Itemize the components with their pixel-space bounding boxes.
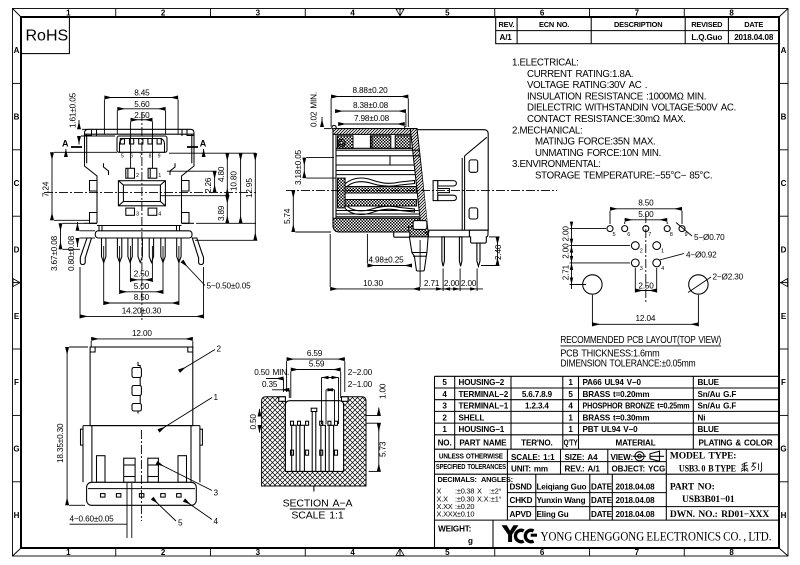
pin 2 (459, 237, 462, 266)
svg-text:1: 1 (442, 425, 447, 434)
dim 5.59 (291, 360, 341, 398)
svg-text:CURRENT RATING:1.8A.: CURRENT RATING:1.8A. (527, 69, 633, 80)
svg-text:PHOSPHOR BRONZE t=0.25mm: PHOSPHOR BRONZE t=0.25mm (583, 402, 690, 411)
svg-text:3: 3 (442, 402, 447, 411)
svg-text:E: E (781, 312, 787, 321)
svg-text:2018.04.08: 2018.04.08 (734, 33, 774, 42)
svg-text:4: 4 (442, 390, 447, 399)
svg-text:2.00: 2.00 (562, 243, 571, 259)
centerline vertical (645, 214, 647, 302)
svg-text:4−0.60±0.05: 4−0.60±0.05 (70, 515, 115, 524)
dim 4.80 (160, 153, 256, 196)
dim 2.50 bottom (130, 246, 152, 282)
svg-text:0.02 MIN.: 0.02 MIN. (310, 92, 319, 127)
centerline horizontal (44, 191, 256, 193)
zone ticks and labels top (66, 9, 734, 18)
view symbols (633, 451, 664, 462)
dim 0.80±0.08 (67, 222, 95, 271)
shell chamfer fold (462, 137, 487, 230)
svg-text:2: 2 (136, 173, 139, 179)
svg-text:2−1.00: 2−1.00 (348, 380, 373, 389)
svg-text:g: g (468, 537, 473, 546)
svg-text:2.26: 2.26 (204, 177, 213, 193)
body outline (333, 129, 429, 232)
svg-text:1: 1 (568, 378, 573, 387)
dim 10.30 (330, 234, 420, 289)
svg-text:C: C (14, 179, 20, 188)
svg-text:1.ELECTRICAL:: 1.ELECTRICAL: (512, 58, 579, 69)
svg-text:APVD: APVD (510, 510, 532, 519)
dim 12.00 (91, 329, 193, 349)
svg-text:10.80: 10.80 (230, 171, 239, 191)
svg-text:2.00: 2.00 (444, 279, 460, 288)
svg-text:7.98±0.08: 7.98±0.08 (354, 114, 390, 123)
svg-text:8.50: 8.50 (134, 293, 150, 302)
shell top box (85, 129, 195, 163)
svg-text:2018.04.08: 2018.04.08 (616, 510, 656, 519)
svg-text:1: 1 (66, 9, 71, 18)
svg-text:PART NAME: PART NAME (459, 439, 507, 448)
bottom hatched bar (333, 218, 422, 232)
dim 18.35±0.30 (56, 347, 88, 505)
svg-text:4: 4 (158, 212, 161, 218)
note 5-0.50±0.05 (182, 261, 251, 291)
mid holes 1-4 (631, 242, 660, 267)
dim 2-1.00 (326, 380, 373, 424)
svg-text:BRASS t=0.20mm: BRASS t=0.20mm (583, 390, 650, 399)
svg-text:G: G (13, 445, 19, 454)
parts table grid (435, 376, 780, 548)
dim 2-2.00 (322, 368, 373, 424)
front face hatched band (410, 129, 429, 232)
svg-text:A: A (62, 139, 69, 149)
svg-text:DIMENSION TOLERANCE:±0.05mm: DIMENSION TOLERANCE:±0.05mm (560, 359, 695, 370)
svg-text:C: C (781, 179, 787, 188)
centerline horizontal (286, 189, 557, 191)
dim 7.24 (42, 152, 118, 220)
svg-text:SECTION A−A: SECTION A−A (283, 498, 353, 510)
svg-text:2: 2 (640, 249, 643, 255)
svg-text:3: 3 (214, 489, 219, 498)
svg-text:BLUE: BLUE (698, 378, 720, 387)
signature rows (510, 483, 656, 520)
svg-text:2.50: 2.50 (134, 111, 150, 120)
svg-text:DATE: DATE (591, 483, 613, 492)
center zipper profile (132, 362, 141, 414)
dim 3.18±0.05 (294, 149, 336, 185)
model type cell (670, 451, 769, 520)
usb opening slot (117, 136, 167, 152)
svg-text:12.95: 12.95 (245, 178, 254, 198)
zone ticks and labels right (779, 46, 788, 520)
svg-text:A/1: A/1 (500, 33, 513, 42)
svg-text:4: 4 (350, 548, 355, 557)
housing-2 top box (90, 347, 193, 426)
zone ticks and labels left (13, 46, 22, 520)
svg-text:PA66 UL94 V−0: PA66 UL94 V−0 (583, 378, 642, 387)
svg-text:6.59: 6.59 (307, 349, 323, 358)
svg-text:5.00: 5.00 (638, 210, 654, 219)
dim 0.35 (262, 380, 289, 398)
svg-text:DATE: DATE (591, 496, 613, 505)
svg-text:2.00: 2.00 (461, 279, 477, 288)
callout 3 (157, 463, 219, 498)
svg-text:2.50: 2.50 (134, 270, 150, 279)
callout 5 (152, 498, 183, 528)
svg-text:0.35: 0.35 (262, 380, 278, 389)
svg-text:9: 9 (685, 232, 688, 238)
lamination lines lower (336, 211, 419, 217)
dim 7.98±0.08 (338, 114, 405, 130)
svg-text:8: 8 (670, 232, 673, 238)
svg-text:H: H (781, 511, 787, 520)
svg-text:5: 5 (445, 548, 450, 557)
svg-text:1: 1 (66, 548, 71, 557)
flange (85, 223, 195, 231)
svg-text:2−2.00: 2−2.00 (348, 368, 373, 377)
hatched U section (262, 397, 366, 486)
peg root hatch (409, 227, 429, 237)
dim 6.59 (287, 349, 345, 392)
svg-text:PBT UL94 V−0: PBT UL94 V−0 (583, 425, 639, 434)
dim 2.50 pcb (635, 268, 656, 293)
svg-text:DESCRIPTION: DESCRIPTION (614, 20, 662, 29)
base (87, 482, 197, 505)
dim 2.00 a (443, 269, 460, 292)
svg-text:TER'NO.: TER'NO. (521, 439, 552, 448)
svg-text:Sn/Au G.F: Sn/Au G.F (698, 402, 737, 411)
svg-text:X.X: X.X (477, 495, 489, 504)
svg-text:OBJECT: YCG: OBJECT: YCG (612, 465, 666, 474)
svg-text:L.Q.Guo: L.Q.Guo (691, 33, 722, 42)
callout 4 (184, 500, 219, 526)
svg-text:3.89: 3.89 (217, 205, 226, 221)
svg-text:1.61±0.05: 1.61±0.05 (69, 92, 78, 128)
svg-text:1: 1 (214, 393, 219, 402)
dim 0.50 MIN. (254, 368, 289, 392)
svg-text:Yunxin Wang: Yunxin Wang (537, 496, 586, 505)
svg-text:BRASS t=0.30mm: BRASS t=0.30mm (583, 413, 650, 422)
dim 10.80 (196, 153, 256, 223)
svg-text:PLATING & COLOR: PLATING & COLOR (699, 439, 773, 448)
svg-text:WEIGHT:: WEIGHT: (438, 525, 471, 534)
svg-text:8.88±0.20: 8.88±0.20 (352, 86, 388, 95)
dim 0.50 left (249, 409, 260, 433)
svg-text:0.50: 0.50 (249, 414, 258, 430)
svg-text:A: A (200, 139, 207, 149)
dim 3.67±0.08 (50, 223, 85, 271)
svg-text:5.6.7.8.9: 5.6.7.8.9 (522, 390, 553, 399)
svg-text:A: A (14, 46, 20, 55)
svg-text:TERMINAL−2: TERMINAL−2 (459, 390, 509, 399)
svg-text:YONG CHENGGONG ELECTRONICS CO.: YONG CHENGGONG ELECTRONICS CO. , LTD. (541, 529, 772, 544)
svg-text:4: 4 (214, 517, 219, 526)
parts rows (438, 378, 773, 447)
svg-text:2.71: 2.71 (424, 279, 440, 288)
pin 4 (148, 208, 157, 215)
dim 12.95 (195, 153, 257, 240)
rear shell hole lower (469, 208, 478, 219)
zone ticks and labels bottom (66, 548, 734, 557)
pin 3 (477, 243, 480, 266)
svg-text:3: 3 (640, 266, 643, 272)
svg-text:E: E (14, 312, 20, 321)
svg-text:PART NO:: PART NO: (670, 482, 715, 492)
tongue (118, 181, 165, 206)
svg-text:8: 8 (729, 9, 734, 18)
left shell dimples (90, 181, 98, 192)
left bent mounting leg (80, 238, 91, 265)
svg-text:DECIMALS:: DECIMALS: (438, 475, 477, 484)
top shell hatched strip (333, 129, 417, 135)
svg-text:3.18±0.05: 3.18±0.05 (294, 149, 303, 185)
dim 8.88±0.20 (331, 86, 408, 127)
corner diagonals (13, 9, 22, 18)
note 2-Ø2.30 (688, 273, 744, 293)
svg-text:4: 4 (350, 9, 355, 18)
svg-text:USB3. 0 B TYPE: USB3. 0 B TYPE (679, 464, 736, 474)
svg-text:SCALE: 1:1: SCALE: 1:1 (511, 453, 555, 462)
title block grid (435, 449, 780, 548)
svg-text:UNMATING FORCE:10N MIN.: UNMATING FORCE:10N MIN. (535, 148, 661, 159)
svg-text:HOUSING−2: HOUSING−2 (459, 378, 505, 387)
svg-text:5: 5 (442, 378, 447, 387)
svg-text:3: 3 (256, 548, 261, 557)
svg-text:1: 1 (158, 173, 161, 179)
dim 5.00 (120, 246, 163, 294)
svg-text:10.30: 10.30 (363, 279, 383, 288)
svg-text:18.35±0.30: 18.35±0.30 (56, 423, 65, 463)
svg-text:ECN NO.: ECN NO. (539, 20, 569, 29)
dim 8.45 (104, 89, 178, 135)
svg-text:2018.04.08: 2018.04.08 (616, 496, 656, 505)
pins front (124, 458, 159, 482)
svg-text:5−Ø0.70: 5−Ø0.70 (694, 233, 725, 242)
svg-text:1: 1 (568, 425, 573, 434)
svg-text:2: 2 (442, 413, 447, 422)
dim 3.89 (217, 196, 227, 224)
svg-text:5.74: 5.74 (283, 208, 292, 224)
svg-text:5: 5 (445, 9, 450, 18)
svg-text:0.50 MIN.: 0.50 MIN. (254, 368, 289, 377)
shell board lock stub (469, 230, 488, 243)
upper contact wave (345, 178, 415, 186)
section cut marks A-A (62, 139, 207, 158)
svg-text:MATERIAL: MATERIAL (615, 439, 655, 448)
svg-text:2.71: 2.71 (562, 264, 571, 280)
dim 12.04 (592, 295, 698, 326)
dim 2.71 (420, 269, 443, 292)
svg-text:F: F (14, 378, 19, 387)
svg-text:4.80: 4.80 (217, 166, 226, 182)
svg-text:5: 5 (613, 232, 616, 238)
big holes (583, 275, 708, 294)
svg-text:HOUSING−1: HOUSING−1 (459, 425, 505, 434)
svg-text:SPECIFIED TOLERANCES: SPECIFIED TOLERANCES (436, 462, 506, 471)
callout 1 (159, 393, 219, 431)
svg-text:6: 6 (627, 232, 630, 238)
svg-text:4: 4 (568, 402, 573, 411)
svg-text:RoHS: RoHS (26, 28, 69, 45)
svg-text:RECOMMENDED PCB LAYOUT(TOP: RECOMMENDED PCB LAYOUT(TOP VIEW) (560, 335, 721, 346)
svg-text:14.20±0.30: 14.20±0.30 (122, 306, 162, 315)
right bent mounting leg (192, 238, 203, 265)
svg-text:8: 8 (729, 548, 734, 557)
svg-text:4: 4 (661, 266, 664, 272)
svg-text:5: 5 (568, 390, 573, 399)
svg-text:5−0.50±0.05: 5−0.50±0.05 (207, 282, 252, 291)
svg-text:12.00: 12.00 (132, 329, 152, 338)
dim 5.74 (283, 190, 331, 232)
svg-text:0.80±0.08: 0.80±0.08 (67, 235, 76, 271)
svg-text:7: 7 (648, 232, 651, 238)
body bottom step to shell (425, 232, 470, 237)
big tapered peg (409, 237, 428, 271)
svg-text:5.59: 5.59 (309, 360, 325, 369)
svg-text:VOLTAGE RATING:30V AC .: VOLTAGE RATING:30V AC . (527, 80, 647, 91)
dim 14.20±0.30 (80, 267, 204, 319)
svg-text:Eling Gu: Eling Gu (537, 510, 569, 519)
svg-text:5: 5 (121, 154, 124, 160)
svg-text:DSND: DSND (510, 483, 533, 492)
wire crimp circle detail (338, 139, 345, 146)
svg-text:Q'TY: Q'TY (564, 439, 579, 448)
svg-text:3: 3 (136, 212, 139, 218)
YCG logo (502, 525, 538, 542)
svg-text:SHELL: SHELL (459, 413, 485, 422)
svg-text:MODEL TYPE:: MODEL TYPE: (670, 451, 736, 461)
svg-text:8.50: 8.50 (638, 198, 654, 207)
dim 1.61±0.05 (69, 92, 116, 144)
svg-text:SCALE 1:1: SCALE 1:1 (291, 509, 343, 521)
latch clip detail (433, 181, 456, 201)
svg-text:DATE: DATE (744, 20, 763, 29)
rear shell hole upper (469, 160, 478, 172)
left dim chain 2.00/2.00/2.71 (562, 222, 631, 289)
base bar (95, 231, 192, 238)
tolerance cell (436, 451, 513, 483)
standoff foot (394, 232, 410, 237)
svg-text:2.MECHANICAL:: 2.MECHANICAL: (512, 125, 582, 136)
svg-text:ANGLES:: ANGLES: (481, 475, 513, 484)
svg-text:5.00: 5.00 (134, 282, 150, 291)
svg-text::±0.10: :±0.10 (455, 510, 474, 519)
svg-text:7: 7 (635, 9, 640, 18)
svg-text:2: 2 (161, 548, 166, 557)
dim 8.50 (104, 246, 179, 305)
svg-text:2.00: 2.00 (562, 226, 571, 242)
lower terminal hatched band (338, 200, 417, 207)
svg-text:INSULATION RESISTANCE :1000M: INSULATION RESISTANCE :1000MΩ MIN. (527, 91, 706, 102)
centerline vertical view3 (140, 430, 142, 521)
svg-text::±1°: :±1° (489, 495, 502, 504)
svg-text:2−Ø2.30: 2−Ø2.30 (713, 273, 744, 282)
dim 0.02 MIN. (310, 92, 332, 129)
svg-text:3.67±0.08: 3.67±0.08 (50, 235, 59, 271)
svg-text:8: 8 (149, 154, 152, 160)
inner left wall line (335, 129, 337, 232)
svg-text:G: G (780, 445, 786, 454)
svg-text:5: 5 (178, 519, 183, 528)
svg-text:DATE: DATE (591, 510, 613, 519)
svg-text:2.40: 2.40 (494, 244, 503, 260)
svg-text:1: 1 (568, 413, 573, 422)
svg-text:DWN. NO.: RD01−XXX: DWN. NO.: RD01−XXX (670, 510, 769, 520)
svg-text:STORAGE TEMPERATURE:−55°C− 8: STORAGE TEMPERATURE:−55°C− 85°C. (535, 171, 712, 182)
svg-text:Leiqiang Guo: Leiqiang Guo (537, 483, 587, 492)
white housing inside (285, 401, 343, 472)
callout 2 (179, 345, 222, 372)
rear shell outline (418, 130, 488, 231)
svg-text:BLUE: BLUE (698, 425, 720, 434)
svg-text:Ni: Ni (698, 413, 706, 422)
svg-text:A: A (781, 46, 787, 55)
dim 5.00 pcb (625, 210, 668, 224)
dim 1.00 (366, 383, 387, 431)
svg-text:DIELECTRIC WITHSTANDIN VOLTA: DIELECTRIC WITHSTANDIN VOLTAGE:500V AC. (527, 103, 736, 114)
svg-text:2: 2 (161, 9, 166, 18)
svg-text:4.98±0.25: 4.98±0.25 (368, 255, 404, 264)
svg-text:H: H (14, 511, 20, 520)
contact fingers (291, 408, 338, 491)
dim 5.60 (117, 100, 165, 134)
svg-text:REV.: A/1: REV.: A/1 (565, 465, 601, 474)
svg-text:B: B (781, 113, 787, 122)
dim 8.38±0.08 (335, 101, 406, 127)
upper terminal hatched band (338, 187, 417, 194)
dim 2.00 b (460, 269, 483, 292)
centerline vertical (141, 112, 143, 320)
svg-text:NO.: NO. (438, 439, 452, 448)
svg-text:7.24: 7.24 (42, 181, 51, 197)
svg-text:CHKD: CHKD (510, 496, 533, 505)
svg-text:2.50: 2.50 (638, 281, 654, 290)
pin 3 (126, 208, 135, 215)
slot contacts 5-9 (120, 139, 161, 145)
svg-text:F: F (781, 378, 786, 387)
housing-2 hatched blocks row (338, 136, 354, 149)
svg-text:9: 9 (158, 154, 161, 160)
svg-text:SIZE: A4: SIZE: A4 (565, 453, 599, 462)
corner seam bump (332, 125, 336, 129)
svg-text:8.38±0.08: 8.38±0.08 (353, 101, 389, 110)
svg-text:2: 2 (217, 345, 222, 354)
svg-text:USB3B01−01: USB3B01−01 (682, 495, 735, 505)
svg-text:UNLESS OTHERWISE: UNLESS OTHERWISE (439, 451, 503, 460)
note 5-Ø0.70 (676, 223, 725, 243)
pin 2 (126, 168, 135, 178)
svg-text:6: 6 (540, 548, 545, 557)
left vertical hatched block (338, 178, 346, 208)
svg-text:TERMINAL−1: TERMINAL−1 (459, 402, 509, 411)
svg-text:REVISED: REVISED (691, 20, 723, 29)
dim 8.50 pcb (610, 198, 682, 224)
waist and middle section sides (85, 163, 195, 223)
svg-text:3.ENVIRONMENTAL:: 3.ENVIRONMENTAL: (512, 159, 601, 170)
dim 4-0.60±0.05 (70, 483, 132, 538)
svg-text:6: 6 (540, 9, 545, 18)
dim 2.26 (167, 171, 217, 193)
note 4-Ø0.92 (660, 251, 718, 261)
section A-A caption (283, 498, 353, 522)
svg-text:VIEW:: VIEW: (611, 453, 633, 462)
scale row (511, 453, 665, 474)
svg-text:MATINJG FORCE:35N MAX.: MATINJG FORCE:35N MAX. (535, 137, 655, 148)
svg-text:2018.04.08: 2018.04.08 (616, 483, 656, 492)
dim 4.98±0.25 (367, 234, 412, 266)
svg-text:4−Ø0.92: 4−Ø0.92 (686, 251, 717, 260)
pin 1 (148, 168, 157, 178)
